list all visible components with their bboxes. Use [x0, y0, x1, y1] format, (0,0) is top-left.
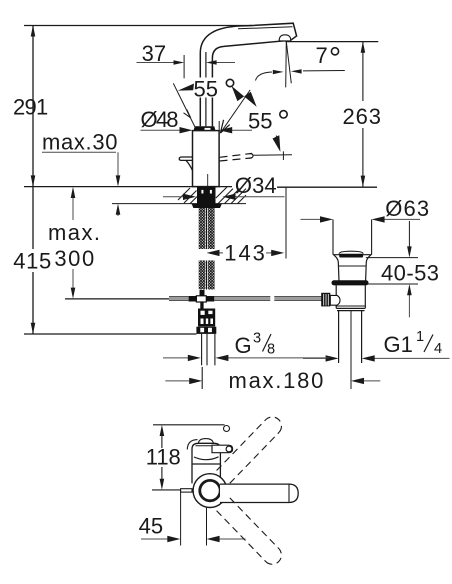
svg-text:3: 3: [253, 331, 261, 347]
lever pin (side view): [179, 157, 192, 171]
riser bore line / 37 right extension: [205, 52, 207, 126]
arrow up at top line: [31, 25, 36, 36]
svg-text:max.30: max.30: [42, 129, 118, 154]
counter top line right segment: [277, 186, 377, 188]
G1 1/4 dimension: [303, 357, 450, 359]
top extension line: [153, 424, 225, 426]
hose end nipple: [200, 290, 205, 296]
svg-text:1: 1: [416, 329, 424, 345]
right wing: diagonal + bowtie: [219, 90, 250, 133]
hose end reference line: [65, 298, 169, 300]
dimension 37 arrowheads: [174, 60, 217, 64]
faucet top view: body: [187, 439, 220, 484]
pivot circles: [193, 474, 227, 508]
spout outline: [200, 23, 296, 126]
aerator outlet tube (top view): [212, 445, 233, 453]
svg-text:118: 118: [146, 444, 181, 469]
svg-text:300: 300: [54, 246, 94, 271]
svg-text:415: 415: [13, 249, 51, 274]
arrowheads for 291/415: [31, 25, 36, 334]
pop-up rod tee fitting: [189, 296, 215, 309]
solid lever (top view): [220, 484, 298, 502]
svg-text:40-53: 40-53: [381, 260, 439, 285]
body below seal: [336, 285, 365, 308]
415 bottom reference line: [24, 333, 196, 335]
svg-text:7: 7: [316, 43, 328, 68]
small circle at extension end: [224, 426, 230, 432]
braided hose lower section: [199, 261, 215, 290]
top reference line: [24, 25, 252, 27]
spout arc seen from top: [194, 457, 219, 460]
max.300 dimension: [72, 198, 74, 289]
left tab: [181, 489, 192, 492]
seal ring: [332, 280, 369, 285]
118 bottom extension line: [152, 489, 181, 491]
svg-text:max.180: max.180: [229, 368, 324, 393]
counter top line: [24, 186, 232, 188]
drain flange extension lines: [333, 219, 372, 254]
counter hatching right: [216, 187, 246, 204]
side knob (knurled): [321, 293, 330, 307]
aerator bump at spout tip: [279, 35, 291, 41]
svg-text:55: 55: [194, 77, 218, 102]
118 dimension vertical: [161, 436, 163, 479]
G 3/8 dimension: [163, 357, 329, 359]
svg-text:4: 4: [434, 341, 442, 357]
pop-up rod (double line): [169, 297, 322, 300]
curl at dome top left: [187, 440, 197, 450]
check valve block: [198, 309, 215, 327]
spout tip level line: [286, 41, 379, 43]
counter bottom line: [112, 203, 246, 205]
plug dome: [339, 251, 363, 254]
tailpipe: [338, 311, 340, 363]
svg-text:G1: G1: [384, 332, 413, 357]
flange top: [333, 254, 372, 256]
riser base black bar: [194, 126, 216, 130]
svg-text:G: G: [235, 333, 252, 358]
arrow down 415 at bottom line: [31, 323, 36, 334]
mounting shank (black): [197, 187, 216, 204]
svg-text:45: 45: [139, 513, 163, 538]
left dimension vertical (291 / 415 shared): [32, 25, 34, 249]
svg-text:Ø48: Ø48: [141, 107, 179, 132]
svg-text:max.: max.: [48, 220, 100, 245]
braided hose upper section: [199, 208, 215, 249]
lever pin bump on dome top: [199, 439, 214, 443]
G3/8 connection pipe: [202, 334, 215, 389]
cartridge dome outline (top view): [192, 443, 220, 483]
svg-text:291: 291: [13, 95, 48, 120]
svg-text:143: 143: [224, 240, 265, 265]
plug cap black band: [339, 254, 363, 258]
spout inner top line: [238, 27, 293, 29]
drain body: [333, 251, 372, 389]
max.30 dimension: [42, 152, 118, 216]
counter hatching left: [178, 188, 197, 204]
svg-text:Ø34: Ø34: [235, 173, 277, 198]
svg-text:Ø63: Ø63: [385, 196, 429, 221]
dashed lever down-right: [217, 498, 282, 564]
knob connector: [330, 295, 340, 305]
arrow down 291 at counter: [31, 175, 36, 186]
svg-text:8: 8: [267, 342, 275, 358]
flange sides narrowing: [334, 255, 339, 281]
dimension 37 lines and extension: [137, 55, 236, 78]
dashed lever up-right: [217, 417, 282, 483]
lever alternate position dashes: [220, 153, 254, 161]
dome inner top line: [196, 445, 218, 447]
locking nut: [192, 204, 222, 208]
faucet body: [193, 131, 220, 187]
connector collar: [196, 327, 216, 334]
svg-text:263: 263: [343, 104, 382, 129]
